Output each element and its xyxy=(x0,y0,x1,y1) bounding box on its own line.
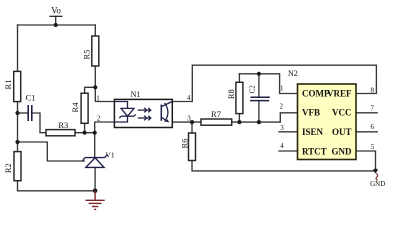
wire R3 right to node xyxy=(75,132,95,134)
resistor R7 xyxy=(201,119,232,125)
resistor R1 xyxy=(14,71,21,101)
wire R5 bottom to node A xyxy=(94,66,96,87)
wire R6 bottom to bottom rail xyxy=(192,161,376,171)
svg-text:4: 4 xyxy=(187,94,191,102)
svg-text:N1: N1 xyxy=(131,90,141,99)
svg-text:R3: R3 xyxy=(58,120,68,130)
svg-text:COMP: COMP xyxy=(302,89,330,99)
node Vo power port xyxy=(49,6,62,17)
wire Vo stub xyxy=(55,17,57,26)
wire left rail upper (to R1) xyxy=(17,25,19,71)
svg-text:VCC: VCC xyxy=(332,108,352,118)
wire R7 right to VFB pin2 xyxy=(232,113,298,122)
node pin3/R6/R7 junction xyxy=(190,120,194,124)
opto-coupler N1 box xyxy=(114,99,172,127)
svg-text:V1: V1 xyxy=(106,150,115,159)
wire top-left rail xyxy=(18,24,96,26)
svg-text:6: 6 xyxy=(371,123,375,131)
opto emitter arrowhead xyxy=(166,119,169,122)
diode V1 TL431 xyxy=(83,155,107,168)
wire R2 bottom to bottom-left rail xyxy=(18,181,96,191)
svg-text:GND: GND xyxy=(370,180,385,188)
svg-text:R8: R8 xyxy=(226,89,236,99)
svg-text:R4: R4 xyxy=(70,102,80,113)
resistor R8 xyxy=(236,82,243,113)
capacitor C2 xyxy=(250,97,270,100)
wire R6 top lead xyxy=(191,122,193,133)
svg-text:VFB: VFB xyxy=(302,108,320,118)
wire R4 bottom xyxy=(84,123,86,132)
wire opto pin4 to top rail to IC pin8 xyxy=(172,65,376,101)
wire RTCT stub pin4 xyxy=(279,150,298,152)
wire R8 bottom lead xyxy=(238,114,240,123)
node V1 anode junction xyxy=(93,189,98,194)
opto LED xyxy=(114,102,135,123)
node GND junction arrow xyxy=(373,169,378,174)
svg-text:C2: C2 xyxy=(249,85,257,94)
wire C1 left branch xyxy=(18,112,29,114)
wire R5 top lead xyxy=(94,25,96,36)
svg-text:1: 1 xyxy=(280,85,284,93)
svg-text:2: 2 xyxy=(97,115,101,123)
svg-text:ISEN: ISEN xyxy=(302,127,324,137)
wire node A to R4 top xyxy=(85,87,96,93)
opto arrows xyxy=(138,108,151,121)
wire V1 anode to bottom rail xyxy=(94,167,96,190)
node C2 top junction xyxy=(257,72,261,76)
svg-text:RTCT: RTCT xyxy=(302,146,327,156)
svg-text:2: 2 xyxy=(280,102,284,110)
svg-text:R5: R5 xyxy=(81,50,91,60)
wire node A to opto pin1 xyxy=(95,87,114,101)
node B junction (pin2/V1/R3) xyxy=(93,131,97,135)
wire ref line to V1 xyxy=(18,142,85,161)
ground earth symbol xyxy=(86,191,105,209)
node R4 bottom junction xyxy=(83,131,87,135)
resistor R2 xyxy=(14,152,21,181)
node C2 bottom junction xyxy=(257,120,261,124)
svg-text:8: 8 xyxy=(371,86,375,94)
resistor R6 xyxy=(189,133,196,161)
node R8 bottom junction xyxy=(237,120,241,124)
wire opto pin3 to R7 xyxy=(172,121,201,123)
node Vo junction xyxy=(54,23,58,27)
wire C2 bottom lead xyxy=(258,101,260,123)
resistor R3 xyxy=(46,130,75,136)
wire OUT stub pin6 xyxy=(356,131,377,133)
ground GND power port xyxy=(370,174,385,189)
node C1 branch junction xyxy=(15,111,19,115)
wire ISEN stub pin3 xyxy=(279,131,298,133)
svg-text:7: 7 xyxy=(371,104,375,112)
svg-text:1: 1 xyxy=(96,94,100,102)
svg-text:R7: R7 xyxy=(211,109,221,119)
svg-text:Vo: Vo xyxy=(51,6,61,16)
wire C2 top lead xyxy=(258,74,260,97)
wire C1 right to R3 xyxy=(32,113,47,133)
svg-text:3: 3 xyxy=(280,124,284,132)
svg-text:OUT: OUT xyxy=(332,127,352,137)
svg-text:VREF: VREF xyxy=(327,89,352,99)
wire GND pin5 down xyxy=(356,151,376,171)
resistor R5 xyxy=(92,36,99,66)
opto phototransistor xyxy=(161,102,172,123)
capacitor C1 xyxy=(28,105,32,121)
IC N2 box xyxy=(298,84,357,160)
svg-text:N2: N2 xyxy=(288,69,298,78)
wire comp top to COMP pin1 xyxy=(239,74,297,94)
svg-text:GND: GND xyxy=(332,146,353,156)
svg-text:5: 5 xyxy=(371,143,375,151)
svg-text:R2: R2 xyxy=(3,163,13,173)
wire left rail middle (R1 to R2) xyxy=(17,102,19,152)
node A junction (R5/R4/pin1) xyxy=(93,85,97,89)
wire R8 top lead xyxy=(238,74,240,83)
svg-text:C1: C1 xyxy=(26,93,36,103)
wire VCC stub pin7 xyxy=(356,112,377,114)
svg-text:4: 4 xyxy=(280,142,284,150)
svg-text:R6: R6 xyxy=(179,139,189,149)
node ref branch junction xyxy=(15,140,19,144)
wire opto pin2 to node B xyxy=(95,122,115,133)
resistor R4 xyxy=(81,93,88,123)
svg-text:R1: R1 xyxy=(3,80,13,90)
wire V1 cathode lead xyxy=(94,133,96,158)
